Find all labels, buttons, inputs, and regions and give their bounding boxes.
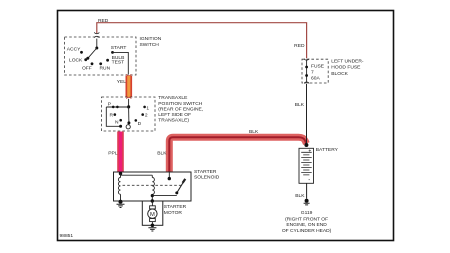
transaxle position switch dashed box: [102, 97, 156, 131]
svg-text:LOCK: LOCK: [69, 58, 83, 64]
motor M: [150, 206, 156, 209]
svg-text:BLK: BLK: [249, 129, 259, 135]
wire PPL: [117, 132, 124, 172]
svg-text:BLK: BLK: [295, 102, 305, 108]
ground (solenoid): [119, 200, 123, 204]
starter motor housing: [142, 201, 163, 225]
svg-text:7: 7: [311, 70, 314, 76]
transaxle lever: [128, 107, 130, 123]
wire YEL: [126, 76, 133, 97]
ignition switch lever: [88, 48, 97, 58]
connector fuse bottom: [304, 82, 309, 84]
svg-text:RED: RED: [98, 18, 109, 24]
connector YEL top (red): [127, 74, 132, 76]
node BLK terminal: [168, 177, 171, 180]
node N lower: [119, 125, 122, 128]
svg-text:STARTER: STARTER: [194, 169, 217, 175]
node PPL terminal: [119, 172, 122, 175]
svg-text:N: N: [115, 119, 119, 125]
svg-text:BATTERY: BATTERY: [316, 147, 339, 153]
node transaxle center: [127, 105, 130, 108]
connector at ignition switch input: [95, 32, 100, 38]
node motor ground: [151, 224, 155, 228]
svg-text:FUSE: FUSE: [311, 63, 325, 69]
svg-text:LEFT SIDE OF: LEFT SIDE OF: [158, 112, 191, 118]
svg-text:+: +: [308, 148, 311, 154]
svg-text:2: 2: [145, 113, 148, 119]
wire BLK fuse to battery: [306, 84, 308, 145]
node ignition pivot: [95, 47, 98, 50]
wire link to coil 2: [121, 174, 153, 176]
svg-text:HOOD FUSE: HOOD FUSE: [331, 65, 361, 71]
solenoid contact blade: [177, 180, 185, 193]
battery: [299, 148, 314, 183]
connector fuse top: [304, 59, 309, 61]
svg-text:ACCY: ACCY: [67, 46, 81, 52]
svg-text:RED: RED: [294, 43, 305, 49]
node battery positive: [304, 143, 308, 147]
fuse 7 element: [306, 60, 308, 83]
svg-text:MOTOR: MOTOR: [164, 210, 183, 216]
svg-text:-: -: [308, 178, 310, 184]
fuse block dashed box: [302, 59, 328, 83]
wire left leg to N: [106, 107, 120, 126]
svg-text:98851: 98851: [60, 233, 74, 239]
coil 1 (pull-in winding): [118, 174, 120, 201]
svg-text:LEFT UNDER-: LEFT UNDER-: [331, 58, 364, 64]
svg-text:ENGINE, ON END: ENGINE, ON END: [286, 222, 327, 228]
svg-text:60A: 60A: [311, 76, 320, 82]
svg-text:M: M: [150, 212, 155, 218]
svg-text:D: D: [138, 121, 142, 127]
svg-text:(REAR OF ENGINE,: (REAR OF ENGINE,: [158, 106, 203, 112]
svg-text:START: START: [111, 45, 127, 51]
svg-text:(RIGHT FRONT OF: (RIGHT FRONT OF: [285, 216, 328, 222]
svg-text:BLOCK: BLOCK: [331, 71, 348, 77]
svg-text:1: 1: [146, 105, 149, 111]
border frame: [58, 11, 394, 241]
wire BLK terminal stem: [168, 173, 170, 179]
connector transaxle input: [127, 97, 132, 99]
cable BLK solenoid to battery (thick): [169, 137, 306, 172]
coil 2 (hold-in winding): [152, 175, 154, 201]
wire transaxle input stem: [128, 99, 130, 107]
svg-text:OF CYLINDER HEAD): OF CYLINDER HEAD): [282, 228, 332, 234]
svg-text:TRANSAXLE): TRANSAXLE): [158, 118, 189, 124]
svg-text:TEST: TEST: [112, 60, 125, 66]
wire ignition input stem: [96, 39, 98, 48]
svg-text:POSITION SWITCH: POSITION SWITCH: [158, 101, 202, 107]
wire to contact pivot: [152, 195, 177, 197]
transaxle actuator circle: [126, 125, 130, 129]
node coil2 bottom: [151, 194, 154, 197]
svg-text:IGNITION: IGNITION: [140, 36, 162, 42]
wire START to YEL output: [113, 52, 129, 74]
starter solenoid box: [114, 172, 192, 201]
svg-text:P: P: [108, 102, 111, 108]
svg-text:G119: G119: [301, 210, 313, 216]
wire battery to ground: [306, 183, 308, 199]
mechanical link (dashed): [123, 184, 183, 186]
svg-text:OFF: OFF: [82, 65, 92, 71]
node motor feed: [151, 199, 154, 202]
connector PPL top (red): [118, 131, 123, 133]
ground G119: [305, 199, 309, 203]
ignition switch dashed box: [65, 37, 137, 75]
svg-text:RUN: RUN: [100, 65, 111, 71]
svg-text:BLK: BLK: [295, 193, 305, 199]
svg-text:PPL: PPL: [108, 150, 118, 156]
svg-text:R: R: [110, 113, 114, 119]
ground (starter motor): [148, 228, 156, 231]
svg-text:YEL: YEL: [117, 79, 127, 85]
svg-text:STARTER: STARTER: [164, 204, 187, 210]
wire RED ignition-switch to fuse block: [97, 23, 307, 59]
svg-text:BLK: BLK: [157, 150, 167, 156]
svg-text:SWITCH: SWITCH: [140, 42, 160, 48]
svg-text:TRANSAXLE: TRANSAXLE: [158, 95, 188, 101]
wire contact bar P row: [106, 106, 128, 108]
svg-text:SOLENOID: SOLENOID: [194, 174, 220, 180]
